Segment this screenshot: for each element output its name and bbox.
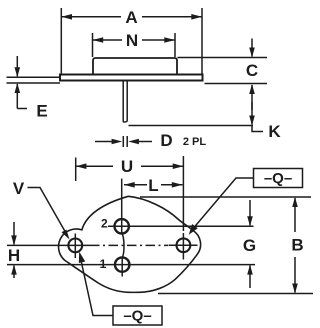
svg-text:–Q–: –Q– [123,308,151,325]
svg-text:G: G [243,236,256,255]
svg-text:B: B [291,236,303,255]
svg-text:V: V [13,179,25,198]
svg-text:U: U [121,157,133,176]
svg-text:N: N [126,31,138,50]
svg-text:1: 1 [100,257,107,271]
svg-text:E: E [36,102,47,121]
svg-text:K: K [268,122,281,141]
svg-text:2: 2 [101,217,108,231]
svg-text:A: A [125,8,137,27]
svg-text:2 PL: 2 PL [183,136,207,148]
svg-text:D: D [160,131,172,150]
svg-text:H: H [8,246,20,265]
svg-text:–Q–: –Q– [264,170,292,187]
svg-text:C: C [246,61,258,80]
svg-text:L: L [148,176,158,195]
